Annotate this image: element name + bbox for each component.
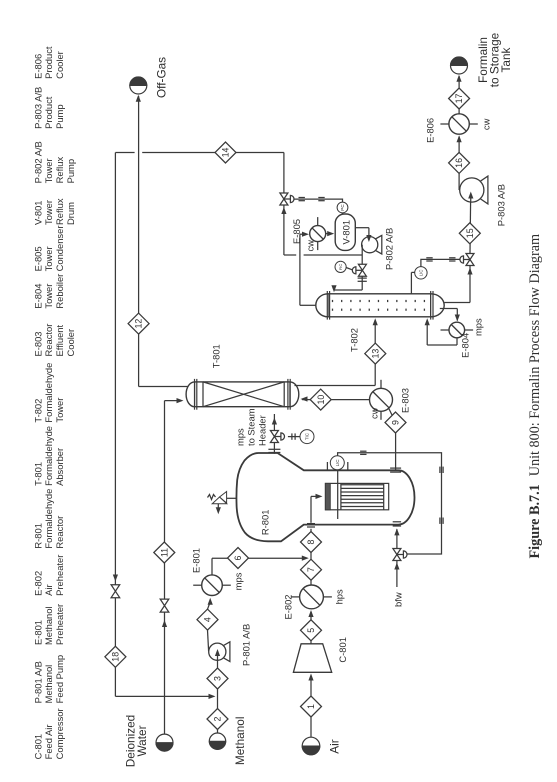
signal line LC to bottoms valve: [421, 259, 463, 266]
flanged nozzle reactor feed: [307, 524, 315, 527]
signal ticks reflux line: [358, 278, 367, 281]
exchanger E-803: [370, 380, 393, 420]
wire bfw line: [396, 529, 398, 587]
feed symbol Methanol: [209, 733, 225, 749]
wire reactor feed internal: [311, 496, 318, 522]
stream diamond 8: [301, 532, 322, 553]
arrow into T-801 top: [177, 398, 184, 403]
svg-text:cw: cw: [369, 407, 380, 419]
svg-text:Pump: Pump: [65, 159, 76, 184]
svg-text:FIC: FIC: [338, 264, 343, 271]
arrow joining air line: [302, 556, 309, 561]
svg-text:TIC: TIC: [305, 433, 310, 440]
relief valve PSV on R-801: [208, 492, 238, 513]
arrow into R-801 bfw nozzle: [394, 528, 399, 535]
wire reflux to T-802: [334, 255, 362, 290]
svg-text:17: 17: [454, 94, 464, 104]
wire E-804 return to T-802: [427, 320, 457, 345]
feed symbol Deionized Water: [156, 734, 173, 751]
label E-802: [283, 594, 294, 619]
svg-text:C-801: C-801: [337, 637, 348, 663]
tube bundle in R-801: [325, 483, 388, 509]
instrument PC on V-801: [337, 202, 348, 214]
flanged nozzle reactor effluent: [390, 468, 401, 472]
svg-text:to Steam: to Steam: [245, 408, 256, 446]
exchanger E-802: [291, 585, 332, 609]
wire methanol feed line: [217, 660, 219, 733]
stream diamond 18: [105, 646, 126, 667]
arrow into P-803: [468, 192, 473, 203]
svg-text:Tower: Tower: [43, 200, 54, 225]
wire V-801 to P-802: [355, 228, 369, 240]
stream diamond 4: [197, 609, 218, 630]
exchanger E-804: [441, 322, 474, 338]
svg-text:Product: Product: [43, 96, 54, 129]
wire stream 6 line: [212, 558, 306, 575]
svg-text:Tower: Tower: [43, 158, 54, 183]
arrow into E-804: [455, 315, 460, 322]
svg-text:bfw: bfw: [393, 592, 404, 607]
arrow relief discharge: [216, 507, 221, 514]
arrow reflux into T-802 top: [331, 285, 336, 292]
product symbol Formalin: [451, 57, 468, 74]
svg-text:LIC: LIC: [335, 459, 340, 466]
svg-text:Air: Air: [328, 739, 342, 753]
svg-text:R-801: R-801: [260, 510, 271, 536]
svg-text:Tower: Tower: [43, 284, 54, 309]
svg-text:T-801: T-801: [211, 344, 222, 368]
signal line PC to valve: [291, 199, 343, 202]
stream diamond 14: [215, 142, 236, 163]
caption Figure B.7.1: [527, 234, 543, 559]
header label P-803 A/B: [33, 87, 66, 129]
svg-text:Tower: Tower: [43, 246, 54, 271]
svg-text:10: 10: [316, 395, 326, 405]
svg-text:12: 12: [134, 319, 144, 329]
header label E-806: [33, 46, 66, 79]
arrow into T-802 feed: [373, 318, 378, 325]
label E-806: [425, 118, 436, 143]
wire T-802 to E-804: [440, 309, 458, 321]
valve on stream 18 line: [111, 585, 120, 598]
svg-text:Water: Water: [135, 725, 149, 756]
svg-text:Off-Gas: Off-Gas: [155, 57, 169, 98]
svg-text:C-801: C-801: [33, 734, 44, 760]
signal ticks LC T-802: [426, 258, 455, 261]
packing X in T-801: [203, 382, 284, 407]
svg-text:1: 1: [306, 704, 316, 709]
header label E-805: [33, 226, 66, 272]
label Methanol: [233, 717, 247, 766]
pump P-803 A/B: [460, 176, 488, 204]
svg-text:P-803 A/B: P-803 A/B: [496, 184, 507, 226]
svg-text:Methanol: Methanol: [233, 717, 247, 766]
svg-text:5: 5: [306, 628, 316, 633]
header label E-802: [33, 555, 66, 596]
svg-text:Absorber: Absorber: [54, 448, 65, 486]
wire stream 18 recycle line: [115, 153, 213, 697]
svg-text:cw: cw: [481, 118, 492, 130]
stream diamond 12: [128, 313, 149, 334]
stream diamond 2: [207, 709, 228, 730]
arrow into Off-Gas: [136, 95, 141, 102]
svg-text:P-802 A/B: P-802 A/B: [33, 141, 44, 183]
arrow into pressure control valve: [281, 207, 286, 214]
svg-text:13: 13: [370, 349, 380, 359]
label bfw: [393, 592, 404, 607]
arrow into E-802: [308, 610, 313, 617]
wire T-802 bottoms: [445, 266, 471, 303]
arrow into P-801: [215, 649, 220, 660]
wire valve to P-803: [469, 201, 472, 253]
svg-text:Tank: Tank: [499, 47, 513, 72]
svg-text:Reactor: Reactor: [43, 324, 54, 357]
exchanger E-801: [193, 575, 231, 596]
instrument FC reflux: [335, 261, 352, 272]
label E-801: [191, 548, 202, 573]
svg-text:V-801: V-801: [341, 220, 352, 245]
control valve FCV reflux: [352, 264, 366, 276]
stream diamond 5: [301, 620, 322, 641]
label mps at E-801: [233, 572, 244, 590]
svg-text:Compressor: Compressor: [54, 708, 65, 759]
svg-text:4: 4: [203, 617, 213, 622]
signal ticks PC line: [299, 198, 325, 201]
label Air: [328, 739, 342, 753]
svg-text:E-804: E-804: [33, 284, 44, 309]
wire T-801 bottoms to T-802: [295, 320, 376, 386]
svg-text:P-803 A/B: P-803 A/B: [33, 87, 44, 129]
svg-text:9: 9: [391, 420, 401, 425]
wire C-801 to E-802: [310, 612, 312, 644]
wire mps to steam header: [273, 414, 275, 454]
svg-text:18: 18: [111, 652, 121, 662]
svg-text:LIC: LIC: [418, 270, 423, 277]
svg-text:8: 8: [306, 539, 316, 544]
label P-802 A/B: [384, 228, 395, 270]
wire P-802 discharge: [284, 205, 362, 255]
stream diamond 9: [385, 412, 406, 433]
svg-text:hps: hps: [334, 589, 345, 604]
arrow into V-801: [327, 231, 334, 236]
label E-805: [291, 219, 302, 244]
valve on deionized water line: [160, 599, 169, 612]
svg-text:mps: mps: [473, 318, 484, 336]
stream diamond 11: [154, 542, 175, 563]
svg-text:Reflux: Reflux: [54, 198, 65, 225]
svg-text:Cooler: Cooler: [54, 51, 65, 79]
arrow into E-801: [208, 598, 213, 605]
svg-text:mps: mps: [233, 572, 244, 590]
stream diamond 16: [449, 152, 470, 173]
arrow into E-805: [302, 232, 309, 237]
svg-text:P-801 A/B: P-801 A/B: [241, 624, 252, 666]
label P-803 A/B: [496, 184, 507, 226]
wire P-803 discharge to E-806: [458, 137, 461, 191]
wire reactor effluent to E-803: [388, 408, 395, 471]
stream diamond 1: [301, 696, 322, 717]
svg-text:E-803: E-803: [400, 388, 411, 413]
label mps to Steam Header: [234, 408, 267, 446]
svg-text:E-801: E-801: [191, 548, 202, 573]
svg-text:P-801 A/B: P-801 A/B: [33, 661, 44, 703]
wire E-802 to R-801: [310, 529, 312, 585]
pump P-801 A/B: [209, 642, 230, 662]
svg-text:E-805: E-805: [33, 246, 44, 271]
signal ticks TC: [292, 433, 295, 439]
svg-text:mps: mps: [234, 428, 245, 446]
control valve on bfw line: [393, 549, 407, 561]
label Off-Gas: [155, 57, 169, 98]
label E-803: [400, 388, 411, 413]
instrument TIC on steam line: [288, 430, 314, 444]
stream diamond 10: [310, 389, 331, 410]
stream diamond 15: [459, 223, 480, 244]
wire PCV to stream 18 line: [115, 153, 284, 193]
wire air feed line: [310, 676, 312, 737]
svg-text:Formaldehyde: Formaldehyde: [43, 426, 54, 486]
svg-text:2: 2: [213, 716, 223, 721]
stream diamond 13: [365, 343, 386, 364]
svg-text:PC: PC: [340, 204, 345, 211]
header label P-802 A/B: [33, 141, 77, 183]
arrow into methanol junction: [209, 694, 216, 699]
arrow into E-806: [457, 135, 462, 142]
svg-text:Condenser: Condenser: [54, 226, 65, 272]
label C-801: [337, 637, 348, 663]
arrow into T-801 bottom: [301, 396, 308, 401]
svg-text:Figure B.7.1Unit 800: Formalin: Figure B.7.1Unit 800: Formalin Process F…: [527, 234, 543, 559]
svg-text:Reactor: Reactor: [54, 516, 65, 549]
drum V-801: [335, 214, 355, 250]
svg-text:Cooler: Cooler: [65, 329, 76, 357]
label cw at E-803: [369, 407, 380, 419]
exchanger E-806: [440, 114, 477, 134]
svg-text:T-802: T-802: [349, 328, 360, 352]
svg-text:15: 15: [465, 228, 475, 238]
control valve PCV stream 14: [280, 193, 294, 205]
arrow into Formalin circle: [456, 75, 461, 82]
svg-text:11: 11: [159, 548, 169, 557]
flanged nozzle bfw: [393, 522, 401, 526]
label R-801: [260, 510, 271, 536]
svg-text:6: 6: [233, 555, 243, 560]
label P-801 A/B: [241, 624, 252, 666]
svg-text:E-802: E-802: [33, 571, 44, 596]
trays in T-802: [333, 300, 425, 311]
svg-text:Product: Product: [43, 46, 54, 79]
svg-text:Methanol: Methanol: [43, 606, 54, 645]
column T-801: [186, 379, 299, 410]
control valve LCV bottoms: [460, 254, 474, 266]
label T-801: [211, 344, 222, 368]
svg-text:T-801: T-801: [33, 462, 44, 486]
svg-text:cw: cw: [305, 240, 316, 252]
wire P-801 to E-801: [208, 603, 210, 651]
svg-text:16: 16: [454, 158, 464, 168]
pump P-802 A/B: [362, 235, 382, 254]
header label T-801: [33, 426, 66, 486]
svg-text:V-801: V-801: [33, 201, 44, 226]
svg-text:E-801: E-801: [33, 620, 44, 645]
arrow into bottoms valve: [467, 268, 472, 275]
svg-text:Feed Air: Feed Air: [43, 724, 54, 759]
level tap line in R-801: [337, 470, 339, 519]
svg-text:14: 14: [221, 148, 231, 158]
svg-text:Formaldehyde: Formaldehyde: [43, 489, 54, 549]
svg-text:Tower: Tower: [54, 398, 65, 423]
label T-802: [349, 328, 360, 352]
svg-text:P-802 A/B: P-802 A/B: [384, 228, 395, 270]
label E-804: [460, 333, 471, 358]
svg-text:T-802: T-802: [33, 399, 44, 423]
svg-text:E-806: E-806: [33, 54, 44, 79]
arrow into valve on stream 18 line: [113, 575, 118, 582]
svg-text:Preheater: Preheater: [54, 555, 65, 596]
exchanger E-805: [310, 217, 326, 250]
instrument LC on T-802: [411, 267, 427, 294]
svg-text:3: 3: [213, 676, 223, 681]
label cw at E-806: [481, 118, 492, 130]
signal line LC to bfw valve: [338, 453, 442, 554]
stream diamond 7: [301, 559, 322, 580]
wire off-gas line: [139, 96, 190, 387]
wire E-806 to Formalin: [458, 76, 460, 114]
svg-text:7: 7: [306, 567, 316, 572]
stream diamond 6: [228, 548, 249, 569]
arrow into P-802: [366, 235, 371, 242]
arrow into tube bundle: [316, 494, 323, 499]
header label P-801 A/B: [33, 655, 66, 703]
header label R-801: [33, 489, 66, 549]
svg-text:Preheater: Preheater: [54, 604, 65, 645]
svg-text:E-803: E-803: [33, 331, 44, 356]
label hps at E-802: [334, 589, 345, 604]
header label E-803: [33, 324, 77, 357]
wire E-803 to T-801 bottom: [302, 399, 370, 401]
arrow on steam line: [272, 418, 277, 425]
header label T-802: [33, 363, 66, 423]
label V-801: [341, 220, 352, 245]
label Deionized Water: [124, 715, 150, 767]
instrument LIC on R-801: [327, 456, 347, 471]
feed symbol Air: [302, 737, 320, 755]
arrow reboiler return into T-802: [425, 318, 430, 325]
svg-text:Effluent: Effluent: [54, 324, 65, 356]
svg-text:Drum: Drum: [65, 202, 76, 225]
wire E-805 to V-801: [326, 233, 332, 235]
wire T-802 overhead to E-805: [300, 234, 316, 305]
compressor C-801: [293, 644, 331, 673]
svg-text:E-804: E-804: [460, 333, 471, 358]
vessel R-801: [236, 453, 414, 541]
svg-text:Reflux: Reflux: [54, 157, 65, 184]
svg-text:Air: Air: [43, 584, 54, 595]
header label E-801: [33, 604, 66, 645]
control valve on steam line: [270, 431, 284, 443]
signal ticks on LC line: [360, 451, 443, 524]
svg-text:Header: Header: [256, 415, 267, 446]
stream diamond 3: [207, 668, 228, 689]
svg-text:Reboiler: Reboiler: [54, 274, 65, 309]
column T-802: [316, 291, 444, 320]
svg-text:Formaldehyde: Formaldehyde: [43, 363, 54, 423]
svg-text:E-802: E-802: [283, 594, 294, 619]
arrow on bfw line: [394, 563, 399, 570]
arrow on deionized water line: [162, 620, 167, 627]
header label V-801: [33, 198, 77, 225]
svg-text:E-806: E-806: [425, 118, 436, 143]
stream diamond 17: [449, 88, 470, 109]
product symbol Off-Gas: [130, 77, 147, 94]
svg-text:Pump: Pump: [54, 104, 65, 129]
flanged nozzle steam outlet: [268, 449, 280, 452]
header label C-801: [33, 708, 66, 759]
label mps at E-804: [473, 318, 484, 336]
svg-text:E-805: E-805: [291, 219, 302, 244]
header label E-804: [33, 274, 66, 309]
label Formalin to Storage Tank: [476, 32, 513, 87]
label cw at E-805: [305, 240, 316, 252]
svg-text:R-801: R-801: [33, 523, 44, 549]
svg-text:Methanol: Methanol: [43, 665, 54, 704]
wire deionized water line: [165, 401, 182, 734]
svg-text:Feed Pump: Feed Pump: [54, 655, 65, 703]
arrow into C-801: [308, 674, 313, 681]
